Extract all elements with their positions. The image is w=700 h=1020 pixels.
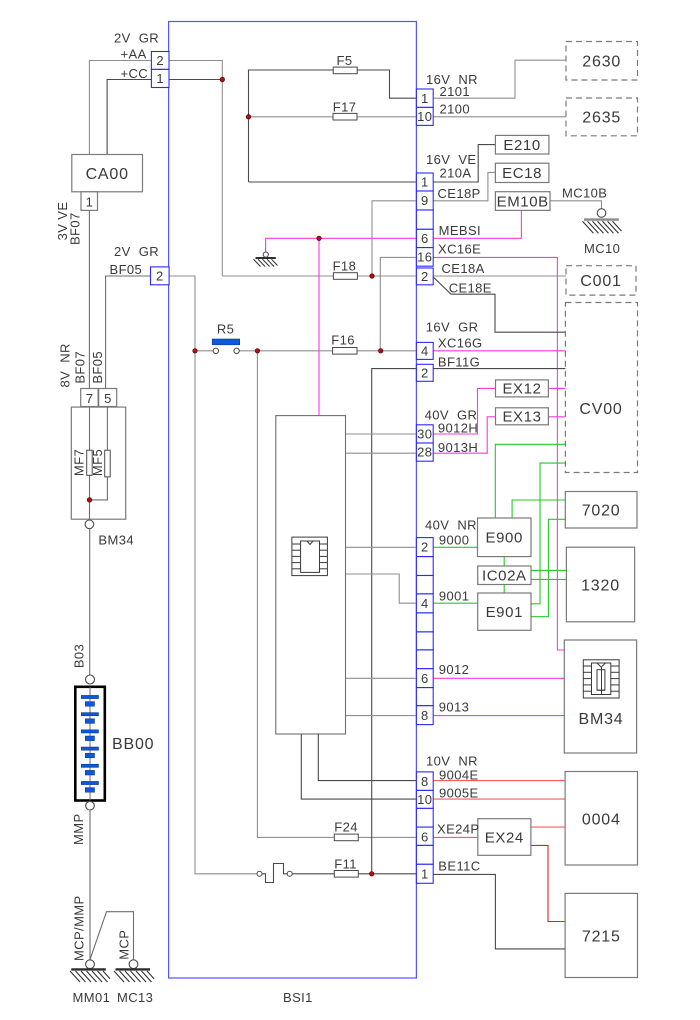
svg-text:F18: F18 [333, 259, 357, 274]
wire unit to pin 8 9013 [346, 715, 417, 717]
node +CC/+AA join [220, 77, 224, 81]
svg-text:7215: 7215 [582, 929, 621, 946]
svg-text:+AA: +AA [121, 47, 147, 62]
wire BF11G inside: pin 2 to long vertical down to F11 junction [372, 369, 417, 874]
wire R5 out to F16 and pin 4 XC16G [239, 350, 416, 352]
node F18/CE18P [370, 274, 374, 278]
svg-text:1: 1 [421, 866, 429, 881]
box 7215 [565, 893, 637, 977]
box EC18 [495, 163, 549, 182]
pin 6 (XE24P) [416, 827, 433, 845]
node MF5/MF7 join [87, 498, 91, 502]
pin empty [416, 650, 433, 669]
svg-text:2: 2 [156, 53, 164, 68]
pin 1 of CA00 [81, 192, 98, 211]
svg-text:MC13: MC13 [117, 990, 153, 1005]
wire green E900 to IC02A [503, 557, 505, 566]
ground MM01 [70, 960, 110, 1005]
wire CE18P to EC18 [433, 172, 495, 200]
svg-text:MC10: MC10 [584, 241, 620, 256]
svg-text:6: 6 [421, 829, 429, 844]
box IC02A [478, 566, 531, 585]
svg-text:2: 2 [156, 268, 164, 283]
svg-text:9004E: 9004E [439, 768, 479, 783]
box EX13 [496, 408, 549, 426]
wire green 7020 to E900 top [512, 500, 565, 518]
node MEBS1 tap [317, 236, 321, 240]
svg-text:6: 6 [421, 231, 429, 246]
wire unit bottom to pin 8 9004E [318, 734, 416, 781]
wire XC16E inside: pin 16 down to F16 junction [380, 257, 416, 350]
svg-text:B03: B03 [71, 644, 86, 668]
wire EM10B to ground MC10B [550, 201, 602, 209]
svg-text:MCP/MMP: MCP/MMP [71, 895, 86, 961]
wire 9013H magenta to EX13 [433, 417, 495, 453]
svg-text:BM34: BM34 [98, 533, 134, 548]
svg-text:XC16G: XC16G [438, 336, 483, 351]
svg-text:1: 1 [86, 195, 93, 210]
pin 7 [81, 389, 98, 407]
svg-text:9005E: 9005E [439, 786, 479, 801]
wire BF05 left vertical down to pin 5 [106, 276, 151, 389]
svg-text:2: 2 [421, 365, 429, 380]
BSI1 main blue box [169, 22, 417, 979]
box 2635 (dashed) [566, 98, 638, 136]
wire unit to pin 30 [346, 433, 417, 435]
svg-text:2100: 2100 [440, 102, 471, 117]
svg-text:BF07: BF07 [68, 212, 83, 245]
BM34 connector icon [583, 660, 619, 698]
svg-text:C001: C001 [580, 273, 621, 290]
relay R5 [212, 322, 240, 354]
BSI pins: left edge [151, 52, 170, 285]
wire green 9001 pin 4 to E901 [433, 602, 478, 604]
svg-text:CE18P: CE18P [438, 186, 481, 201]
pin 4 (9001) [416, 594, 433, 613]
pin empty [416, 808, 433, 827]
pin 10 (9005E) [416, 790, 433, 808]
svg-text:7: 7 [86, 391, 93, 406]
svg-text:EC18: EC18 [502, 165, 542, 182]
svg-text:1320: 1320 [581, 578, 620, 595]
svg-text:9012: 9012 [439, 662, 470, 677]
svg-text:E210: E210 [503, 137, 540, 154]
pin empty above 6 [416, 210, 433, 229]
wire R5 feed left [195, 350, 213, 352]
fuse F5 [333, 53, 357, 74]
wire unit to pin 6 9012 [346, 677, 417, 679]
svg-text:4: 4 [421, 596, 429, 611]
svg-text:F11: F11 [334, 857, 357, 872]
wire green IC02A to 1320 upper [531, 569, 566, 571]
svg-text:CA00: CA00 [86, 166, 129, 183]
svg-text:XC16E: XC16E [438, 242, 481, 257]
pin empty [416, 688, 433, 706]
svg-text:2: 2 [421, 269, 429, 284]
pin 2 (BF05) [151, 267, 170, 285]
wire 9012H magenta to EX12 [433, 388, 495, 434]
pin 9 (CE18P) [416, 191, 433, 210]
pin 2 (BF11G) [416, 364, 433, 381]
wire XC16E magenta to BM34 [433, 257, 564, 650]
wire EX13 to CV00 [548, 416, 565, 418]
wire red 9004E to 0004 [433, 780, 565, 782]
svg-text:2V GR: 2V GR [114, 31, 159, 46]
svg-text:1: 1 [421, 91, 429, 106]
pin number texts [156, 53, 432, 881]
ground inside box (MEBS1) [254, 252, 278, 267]
wire red 9005E to 0004 [433, 798, 565, 800]
svg-text:9013H: 9013H [438, 440, 478, 455]
wire 210A to E210 [433, 145, 495, 182]
connector circle top of BB00 [86, 675, 95, 684]
wire CE18P inside: pin 9 down to F18 junction [372, 201, 416, 276]
svg-text:CV00: CV00 [579, 401, 622, 418]
svg-text:E900: E900 [485, 530, 522, 547]
wire BF05 pin stub to vertical [169, 276, 195, 351]
fuse F11 [334, 857, 358, 878]
fuse F24 [334, 820, 358, 841]
pin 2 (CE18A) [416, 268, 433, 285]
fuse box MF7/MF5 [71, 407, 125, 519]
svg-text:2V GR: 2V GR [114, 244, 159, 259]
wire +AA right into box, vertical to F18 bus [169, 61, 222, 277]
wire green 9000 pin 2 to E900 [433, 546, 477, 548]
pin 1 (BE11C) [416, 864, 433, 883]
svg-text:2635: 2635 [582, 110, 621, 127]
box E900 [478, 518, 532, 557]
box 2630 (dashed) [566, 42, 638, 81]
node F11/BF11G [370, 872, 374, 876]
svg-text:F17: F17 [333, 100, 357, 115]
svg-text:BF05: BF05 [110, 262, 143, 277]
svg-text:BE11C: BE11C [438, 859, 480, 874]
svg-text:CE18E: CE18E [449, 281, 492, 296]
wire green IC02A to E901 [503, 585, 505, 594]
wire R5 vertical down to F24 [257, 351, 334, 838]
svg-text:9: 9 [421, 193, 429, 208]
svg-text:IC02A: IC02A [482, 568, 527, 585]
wire B03 down to battery [89, 529, 91, 675]
svg-text:30: 30 [417, 427, 432, 442]
connector circle BM34 left [85, 520, 94, 529]
node F16/XC16E [379, 349, 383, 353]
svg-text:EM10B: EM10B [497, 193, 549, 210]
pin 28 (9013H) [416, 443, 433, 461]
wire F24 to pin 6 XE24P [358, 836, 416, 838]
svg-text:MF5: MF5 [90, 449, 105, 476]
pin 1 (210A) [416, 173, 433, 191]
svg-text:+CC: +CC [121, 66, 149, 81]
battery BB00 [75, 687, 154, 801]
svg-text:EX12: EX12 [502, 381, 541, 398]
svg-text:2: 2 [421, 540, 429, 555]
svg-text:9012H: 9012H [438, 421, 478, 436]
fuse MF5 [90, 449, 110, 477]
wire CE18A to C001 [433, 275, 566, 277]
pin 8 (9004E) [416, 772, 433, 791]
wire +CC left to CA00 [107, 80, 151, 155]
pin 1 (2101) [416, 89, 433, 107]
box EX24 [478, 819, 531, 856]
wire 2100 to 2635 [433, 116, 566, 118]
BSI pins: right edge column [416, 89, 433, 883]
pin empty [416, 845, 433, 864]
box E901 [478, 593, 531, 630]
wire unit to pin 2 9000 [346, 546, 417, 548]
svg-text:MF7: MF7 [71, 449, 86, 476]
svg-text:MEBSI: MEBSI [439, 223, 481, 238]
svg-text:MC10B: MC10B [562, 186, 607, 201]
pin empty [416, 613, 433, 632]
node F17 tap [246, 115, 250, 119]
pin 10 (2100) [416, 107, 433, 125]
svg-text:F24: F24 [334, 820, 358, 835]
pin 6 (MEBS1) [416, 229, 433, 247]
svg-text:1: 1 [421, 175, 429, 190]
svg-text:BM34: BM34 [579, 711, 624, 728]
svg-text:9000: 9000 [439, 533, 470, 548]
svg-text:F5: F5 [337, 53, 353, 68]
switch contact near F11 [257, 864, 292, 883]
svg-text:6: 6 [421, 671, 429, 686]
svg-text:28: 28 [417, 445, 432, 460]
wire switch to F11 to pin 1 BE11C [292, 873, 416, 875]
wire 9013 magenta to BM34 [433, 715, 564, 717]
svg-text:2101: 2101 [440, 84, 471, 99]
wire 2101 to 2630 [433, 60, 566, 98]
node R5 right [255, 349, 259, 353]
svg-text:F16: F16 [331, 333, 355, 348]
box C001 (dashed) [566, 266, 636, 295]
wire red EX24 to 0004 [531, 826, 565, 828]
box BM34 right [564, 640, 636, 753]
wire F5 loop: vertical and F5 branch to pin 2101 [249, 70, 417, 182]
svg-text:BSI1: BSI1 [283, 990, 313, 1005]
svg-text:5: 5 [104, 391, 111, 406]
wire CE18E to CV00 [433, 277, 565, 332]
wire MCP branch to MC13 [90, 912, 134, 960]
svg-text:EX24: EX24 [485, 830, 524, 847]
svg-text:9013: 9013 [439, 700, 470, 715]
svg-text:BF05: BF05 [90, 351, 105, 384]
svg-text:BF07: BF07 [72, 351, 87, 384]
svg-text:8: 8 [421, 708, 429, 723]
svg-text:MCP: MCP [117, 930, 132, 960]
pin empty [416, 632, 433, 650]
pin 16 (XC16E) [416, 248, 433, 267]
fuse MF7 [71, 449, 92, 476]
wire green CV00 to E900 top [495, 444, 565, 518]
svg-text:4: 4 [421, 344, 429, 359]
wire green 7020 to E901 right [531, 519, 565, 616]
svg-text:CE18A: CE18A [442, 261, 485, 276]
svg-text:E901: E901 [486, 604, 523, 621]
pin 30 (9012H) [416, 425, 433, 443]
wire unit to pin 4 9001 [346, 574, 417, 603]
wire EX12 to CV00 [548, 387, 565, 389]
box CV00 (dashed) [565, 303, 637, 473]
svg-text:2630: 2630 [582, 54, 621, 71]
svg-text:R5: R5 [217, 322, 234, 337]
svg-text:BB00: BB00 [112, 736, 154, 753]
wire BE11C to 7215 [433, 874, 565, 949]
wire MEBS1 to EM10B [433, 210, 521, 238]
connector circle bottom of BB00 [86, 801, 95, 810]
fuse F17 [333, 100, 357, 121]
box E210 [495, 135, 549, 154]
IC chip icon inside unit [292, 537, 328, 576]
wire XC16G magenta to CV00 [433, 350, 565, 352]
wire +CC right to junction [169, 79, 222, 81]
wire red EX24 to 7215 [531, 845, 565, 921]
svg-text:40V NR: 40V NR [425, 518, 477, 533]
box EM10B [495, 192, 550, 211]
svg-text:7020: 7020 [582, 503, 621, 520]
wire 210A bottom of loop to pin 1 [249, 181, 417, 183]
svg-text:10: 10 [417, 792, 432, 807]
svg-text:MMP: MMP [71, 813, 86, 845]
wire red XE24P to EX24 [433, 836, 478, 838]
wire MF5 internal [90, 407, 108, 500]
pin 2 (9000) [416, 538, 433, 557]
box 1320 [566, 547, 634, 622]
wire BF07 CA00 pin down to pin 7 [88, 210, 90, 388]
svg-text:XE24P: XE24P [437, 822, 479, 837]
wire unit bottom to pin 10 9005E [301, 734, 416, 799]
svg-text:BF11G: BF11G [438, 355, 480, 370]
pin 4 (XC16G) [416, 342, 433, 359]
ground MC10B [583, 209, 622, 234]
pin 6 (9012) [416, 669, 433, 688]
pin 2 (+AA) [151, 52, 169, 70]
wire green CV00 to E901 right [531, 463, 565, 604]
wire green IC02A to 1320 lower [531, 578, 566, 580]
wire 9012 magenta to BM34 [433, 677, 564, 679]
svg-text:1: 1 [156, 71, 164, 86]
pin empty [416, 557, 433, 576]
wire magenta junction down to internal unit [318, 238, 320, 415]
inner unit box [276, 416, 346, 734]
svg-text:8: 8 [421, 774, 429, 789]
svg-text:10V NR: 10V NR [426, 754, 478, 769]
wire MMP down to ground [89, 810, 91, 960]
fuse F18 [333, 259, 358, 280]
wire BF11G to CV00 [433, 368, 565, 370]
pin empty [416, 576, 433, 594]
wire unit to pin 28 [346, 452, 417, 454]
svg-text:16: 16 [417, 250, 432, 265]
svg-text:16V GR: 16V GR [426, 320, 479, 335]
fuse F16 [331, 333, 357, 355]
svg-text:10: 10 [417, 109, 432, 124]
box 0004 [565, 772, 637, 866]
box CA00 [72, 155, 143, 192]
svg-text:9001: 9001 [439, 589, 470, 604]
wire BF05 vertical down to bottom switch [195, 351, 257, 874]
svg-text:8V NR: 8V NR [57, 343, 72, 387]
svg-text:MM01: MM01 [73, 990, 111, 1005]
junction node dots [87, 77, 383, 876]
svg-text:210A: 210A [440, 166, 472, 181]
svg-text:EX13: EX13 [502, 409, 541, 426]
box 7020 [565, 492, 637, 529]
wire MF7 internal [89, 407, 91, 521]
wire MEBS1 magenta ground to pin 6 [266, 238, 417, 252]
pin 5 [99, 389, 117, 407]
svg-text:0004: 0004 [582, 812, 621, 829]
wire F17 branch to pin 2100 [249, 116, 417, 118]
wire +AA left to CA00 [89, 61, 151, 155]
ground MC13 [114, 960, 154, 1005]
pin 8 (9013) [416, 706, 433, 725]
node R5 left [193, 349, 197, 353]
wire F18 bus to pin 2 CE18A [222, 275, 416, 277]
box EX12 [496, 380, 549, 398]
pin 1 (+CC) [151, 69, 169, 87]
